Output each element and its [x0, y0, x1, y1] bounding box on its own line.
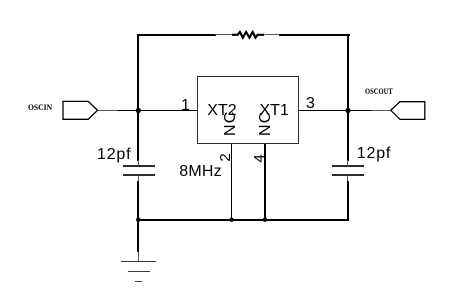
pin name XT2 — [207, 103, 236, 119]
wire left cap top pin (thin) — [138, 160, 139, 166]
wire ground stem (thin) — [138, 252, 139, 262]
wire left vertical upper — [137, 34, 139, 161]
port OSCOUT label — [365, 88, 393, 96]
pin 4 wire — [264, 144, 266, 220]
pin number 2 (rotated) — [218, 152, 233, 163]
pin name XT1 — [260, 103, 289, 119]
wire right cap top pin (thin) — [347, 160, 348, 166]
pin number 3 — [306, 96, 315, 112]
wire left cap bottom pin (thin) — [138, 176, 139, 182]
ground — [121, 261, 156, 262]
value label 12pf (left) — [97, 147, 131, 163]
pin number 4 (rotated) — [252, 153, 267, 164]
wire bottom horizontal bus — [137, 219, 349, 221]
pin name NC (pin 4, rotated) — [258, 114, 276, 136]
port OSCIN label — [28, 104, 52, 112]
capacitor C1 top plate — [123, 165, 155, 167]
pin number 1 — [181, 98, 190, 114]
wire node B to OSCOUT — [348, 110, 371, 112]
wire top horizontal right segment — [279, 34, 350, 36]
value label 8MHz — [179, 164, 222, 180]
wire right vertical lower — [347, 181, 349, 221]
wire OSCIN pin (thin) — [98, 110, 118, 111]
wire right vertical upper — [347, 34, 349, 161]
capacitor C2 bottom plate — [332, 174, 364, 176]
pin name NC (pin 2, rotated) — [223, 114, 241, 136]
capacitor C2 top plate — [332, 165, 364, 167]
wire OSCOUT pin (thin) — [371, 110, 391, 111]
wire resistor left pin (thin) — [215, 34, 232, 35]
wire OSCIN to node A — [118, 110, 139, 112]
pin 1 wire — [138, 110, 198, 112]
capacitor C1 bottom plate — [123, 174, 155, 176]
wire left vertical lower — [137, 181, 139, 252]
wire top horizontal left segment — [137, 34, 216, 36]
pin 3 wire — [298, 110, 348, 112]
wire resistor right pin (thin) — [265, 34, 279, 35]
value label 12pf (right) — [357, 146, 391, 162]
pin 2 wire — [231, 144, 233, 220]
crystal XT1 box — [197, 76, 299, 144]
wire right cap bottom pin (thin) — [347, 176, 348, 182]
